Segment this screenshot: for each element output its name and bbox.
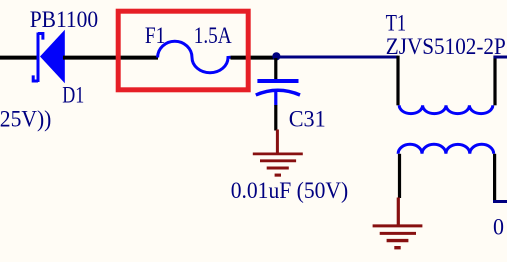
ground GND2 — [373, 198, 423, 248]
red highlight box — [118, 11, 248, 90]
svg-text:0: 0 — [493, 214, 504, 240]
wire — [0, 56, 38, 60]
junction dot — [272, 52, 280, 60]
wire — [493, 200, 507, 203]
wire — [493, 154, 496, 202]
inductor winding primary — [399, 105, 493, 113]
ground GND1 — [253, 130, 303, 176]
svg-text:C31: C31 — [289, 106, 326, 132]
svg-text:T1: T1 — [386, 11, 407, 37]
wire — [493, 56, 496, 106]
wire — [63, 56, 158, 60]
capacitor C31 — [256, 58, 300, 106]
wire — [494, 56, 507, 59]
svg-text:0.01uF (50V): 0.01uF (50V) — [231, 178, 349, 204]
svg-text:(25V)): (25V)) — [0, 106, 51, 132]
transformer T1 — [398, 56, 507, 202]
inductor winding secondary — [398, 144, 494, 154]
fuse F1 — [158, 41, 231, 73]
wire — [274, 105, 277, 131]
svg-text:F1: F1 — [145, 23, 166, 49]
wire — [398, 154, 401, 198]
wire — [231, 56, 277, 60]
diode D1 — [33, 30, 65, 84]
wire — [396, 56, 399, 106]
svg-text:ZJVS5102-2P: ZJVS5102-2P — [386, 34, 506, 60]
svg-text:1.5A: 1.5A — [194, 23, 232, 49]
svg-text:D1: D1 — [62, 83, 84, 109]
wire — [276, 56, 398, 59]
svg-text:PB1100: PB1100 — [30, 7, 99, 33]
